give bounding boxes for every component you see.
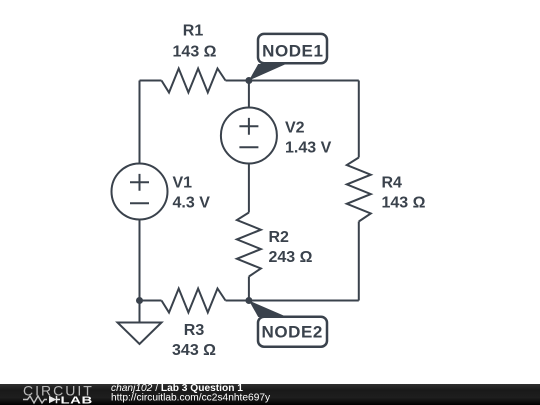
wire: bottom-left segment (ground node to R3) [140, 300, 162, 302]
wire: middle vertical (NODE1 to V2) [248, 81, 250, 108]
svg-text:V2: V2 [285, 120, 305, 137]
svg-text:343 Ω: 343 Ω [172, 342, 216, 359]
CircuitLab logo LAB text [61, 394, 93, 405]
svg-text:LAB: LAB [61, 394, 93, 405]
wire: left vertical lower (V1 to bottom wire) [139, 220, 141, 301]
resistor R1 [162, 69, 226, 93]
svg-text:4.3 V: 4.3 V [173, 195, 211, 212]
label V2 value [285, 120, 332, 157]
wire: right vertical lower (R4 to bottom wire) [358, 222, 360, 301]
svg-text:R1: R1 [183, 23, 204, 40]
svg-text:143 Ω: 143 Ω [382, 195, 426, 212]
junction dot NODE2 [245, 297, 252, 304]
footer bar [0, 384, 540, 405]
resistor R2 [237, 213, 261, 277]
svg-text:143 Ω: 143 Ω [173, 43, 217, 60]
svg-text:V1: V1 [173, 175, 193, 192]
wire: top-left segment (left vertical to R1) [140, 80, 162, 82]
footer url text [111, 392, 271, 403]
resistor R3 [162, 289, 226, 313]
node NODE1 callout [249, 34, 327, 81]
CircuitLab logo resistor symbol [23, 396, 47, 403]
label V1 value [173, 175, 211, 212]
CircuitLab logo diode symbol [49, 396, 60, 404]
wire: middle vertical (R2 to NODE2) [248, 277, 250, 301]
svg-text:R4: R4 [382, 175, 403, 192]
wire: middle vertical (V2 to R2) [248, 164, 250, 213]
wire: left vertical upper (top wire to V1) [139, 81, 141, 164]
svg-text:R2: R2 [269, 229, 290, 246]
voltage source V2 [221, 108, 277, 164]
label R1 value [173, 23, 217, 61]
label R2 value [269, 229, 313, 266]
svg-text:http://circuitlab.com/cc2s4nht: http://circuitlab.com/cc2s4nhte697y [111, 392, 271, 403]
CircuitLab logo wordmark [23, 383, 94, 399]
wire: top segment R1 to NODE1 to right corner [226, 80, 359, 82]
node NODE2 callout [249, 301, 327, 347]
wire: right vertical upper (top wire to R4) [358, 81, 360, 158]
junction dot NODE1 [245, 77, 252, 84]
svg-text:NODE1: NODE1 [262, 42, 323, 61]
footer title text [111, 383, 243, 394]
svg-text:1.43 V: 1.43 V [285, 140, 332, 157]
junction dot ground node [136, 297, 143, 304]
svg-text:243 Ω: 243 Ω [269, 249, 313, 266]
label R4 value [382, 175, 426, 212]
wire: bottom segment (R3 to NODE2 to right corner) [226, 300, 359, 302]
svg-text:NODE2: NODE2 [262, 323, 323, 342]
resistor R4 [347, 158, 371, 222]
voltage source V1 [112, 164, 168, 220]
label R3 value [172, 322, 216, 359]
svg-text:R3: R3 [184, 322, 205, 339]
ground [118, 301, 162, 345]
